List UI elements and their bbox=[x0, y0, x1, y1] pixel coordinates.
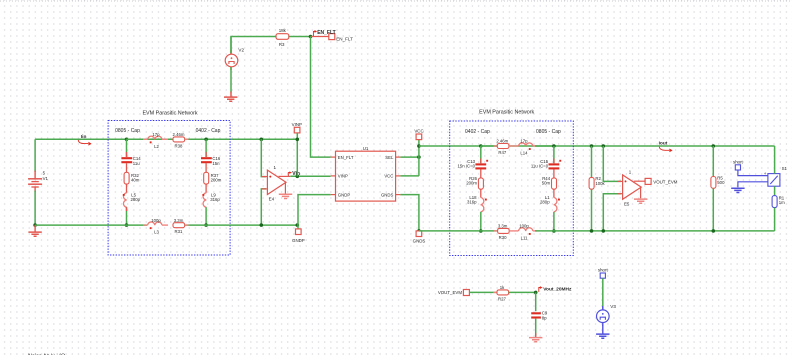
wire bottom rail left bbox=[35, 224, 147, 226]
junction top rail C14 bbox=[125, 138, 129, 142]
wire L14 to C15 node bbox=[535, 145, 554, 147]
junction bottom rail C13 bbox=[479, 229, 483, 233]
junction top rail C13 bbox=[479, 144, 483, 148]
tag GNDP bbox=[292, 229, 305, 243]
tag EN_FLT bbox=[329, 34, 353, 42]
svg-text:1k: 1k bbox=[500, 285, 505, 290]
tag VOUT_EVM bbox=[645, 178, 678, 184]
svg-text:1: 1 bbox=[274, 165, 277, 170]
junction top rail C16 bbox=[204, 138, 208, 142]
junction bottom rail C16 bbox=[204, 223, 208, 227]
svg-text:E5: E5 bbox=[624, 201, 630, 206]
svg-text:5: 5 bbox=[43, 171, 46, 176]
svg-text:S1: S1 bbox=[782, 166, 788, 171]
junction VINP top rail bbox=[296, 138, 300, 142]
svg-text:100p: 100p bbox=[151, 218, 161, 223]
wire U1 VCC pin to riser bbox=[400, 175, 419, 177]
wire R27 to C9 node bbox=[509, 291, 536, 293]
svg-text:15n: 15n bbox=[212, 161, 220, 166]
svg-text:R38: R38 bbox=[175, 143, 183, 148]
wire bottom rail right start bbox=[419, 230, 498, 232]
svg-text:E4: E4 bbox=[269, 197, 275, 202]
junction SEL bbox=[417, 155, 421, 159]
wire EN_FLT node down to U1 bbox=[311, 37, 331, 158]
inductor L9 bbox=[202, 192, 220, 207]
wire short tag to S1 bbox=[738, 170, 768, 176]
svg-text:3.3m: 3.3m bbox=[498, 224, 508, 229]
svg-text:VCC: VCC bbox=[414, 128, 423, 133]
svg-text:11u: 11u bbox=[133, 161, 140, 166]
svg-text:EVM Parasitic Network: EVM Parasitic Network bbox=[479, 109, 534, 115]
wire top rail to S1 bbox=[774, 146, 776, 174]
wire top rail right bbox=[419, 145, 775, 147]
svg-text:SEL: SEL bbox=[385, 155, 394, 160]
wire C15 branch top bbox=[553, 146, 555, 163]
junction bottom rail C15 bbox=[552, 229, 556, 233]
wire C15 to R44 bbox=[553, 169, 555, 178]
svg-text:+: + bbox=[764, 171, 767, 176]
wire short tag to V3 bbox=[602, 278, 604, 309]
svg-text:40m: 40m bbox=[131, 177, 140, 182]
svg-text:VINP: VINP bbox=[338, 174, 348, 179]
dashed boundary EVM parasitic network left bbox=[108, 121, 230, 256]
capacitor C14 bbox=[121, 156, 141, 166]
svg-text:200m: 200m bbox=[466, 180, 477, 185]
resistor R37 bbox=[204, 172, 222, 184]
svg-text:L3: L3 bbox=[154, 230, 159, 235]
svg-text:EN_FLT: EN_FLT bbox=[338, 155, 354, 160]
wire U1 SEL to VCC net bbox=[400, 156, 419, 158]
resistor R27 bbox=[493, 285, 508, 301]
wire L18 to bottom rail bbox=[480, 212, 482, 231]
svg-text:VINP: VINP bbox=[292, 122, 302, 127]
svg-text:8p: 8p bbox=[542, 315, 547, 320]
wire VINP tag down bbox=[296, 133, 298, 176]
op-amp VCVS E4 bbox=[262, 165, 292, 202]
wire C16 to R37 bbox=[205, 163, 207, 172]
wire L1 to bottom rail bbox=[553, 212, 555, 231]
wire R2 to bottom rail bbox=[591, 189, 593, 231]
junction VCC rail bbox=[417, 144, 421, 148]
junction E5 plus top bbox=[602, 144, 606, 148]
wire C14 branch top bbox=[126, 139, 128, 157]
junction E4 minus bottom bbox=[260, 223, 264, 227]
tag VINP bbox=[292, 122, 302, 133]
wire ground to S1 bbox=[738, 182, 768, 188]
ground under V1 bbox=[28, 225, 41, 236]
svg-text:0805 - Cap: 0805 - Cap bbox=[115, 128, 140, 134]
wire R26 to L18 bbox=[480, 189, 482, 197]
resistor R2 bbox=[589, 176, 605, 189]
svg-text:EN_FLT: EN_FLT bbox=[336, 36, 353, 41]
svg-text:VCC: VCC bbox=[384, 174, 393, 179]
junction GNDP node bbox=[296, 223, 300, 227]
inductor L14 bbox=[509, 139, 537, 156]
resistor R44 bbox=[542, 176, 557, 189]
svg-text:2.46m: 2.46m bbox=[496, 139, 508, 144]
wire VCC riser bbox=[418, 140, 420, 176]
inductor L1 bbox=[540, 195, 560, 212]
inductor L11 bbox=[509, 224, 537, 241]
junction R2 bottom bbox=[590, 229, 594, 233]
svg-text:EN_FLT: EN_FLT bbox=[317, 30, 336, 36]
wire bottom rail right bbox=[535, 230, 775, 232]
wire L5 to bottom rail bbox=[126, 207, 128, 225]
svg-text:VOUT_EVM: VOUT_EVM bbox=[438, 290, 462, 295]
wire R2 branch bbox=[591, 146, 593, 177]
ground under V2 bbox=[224, 92, 237, 102]
junction E5 minus bottom bbox=[602, 229, 606, 233]
svg-text:short: short bbox=[598, 268, 609, 273]
source V2 bbox=[225, 37, 244, 71]
wire V2 to R3 bbox=[231, 37, 276, 54]
wire V2 to ground bbox=[230, 67, 232, 93]
voltage probe EN_FLT bbox=[313, 30, 335, 36]
svg-text:18k: 18k bbox=[279, 28, 287, 33]
svg-text:R27: R27 bbox=[498, 296, 506, 301]
wire R38 to C16 node bbox=[185, 138, 207, 140]
junction V1 bottom bbox=[33, 223, 37, 227]
wire bottom rail mid bbox=[185, 224, 298, 226]
wire R37 to L9 bbox=[205, 184, 207, 193]
svg-text:Iout: Iout bbox=[659, 140, 668, 146]
svg-text:GNDS: GNDS bbox=[413, 239, 426, 244]
op-amp VCVS E5 bbox=[618, 170, 648, 207]
wire tag to R27 bbox=[469, 291, 497, 293]
resistor R32 bbox=[124, 172, 140, 184]
svg-text:316p: 316p bbox=[467, 200, 477, 205]
wire V3 to ground bbox=[602, 325, 604, 334]
junction R5 top bbox=[712, 144, 716, 148]
current probe Iin bbox=[78, 134, 91, 146]
wire U1 GNDP to bottom rail bbox=[298, 195, 331, 226]
svg-text:0402 - Cap: 0402 - Cap bbox=[196, 128, 221, 134]
inductor L3 bbox=[143, 218, 168, 235]
svg-text:1: 1 bbox=[629, 170, 632, 175]
source V1 bbox=[28, 139, 48, 192]
wire E4 minus input to bottom rail bbox=[261, 189, 266, 225]
current probe Iout bbox=[659, 140, 673, 152]
resistor R47 bbox=[481, 139, 509, 155]
ground under short tag bbox=[731, 188, 744, 192]
svg-text:V1: V1 bbox=[43, 176, 49, 181]
junction R2 top bbox=[590, 144, 594, 148]
svg-text:L11: L11 bbox=[521, 236, 528, 241]
tag short V3 bbox=[598, 268, 609, 279]
wire R5 branch bbox=[712, 146, 714, 177]
wire R32 to L5 bbox=[126, 184, 128, 193]
svg-text:0402 - Cap: 0402 - Cap bbox=[465, 129, 490, 135]
svg-text:3.3m: 3.3m bbox=[174, 218, 184, 223]
wire R1 to bottom rail bbox=[774, 208, 776, 231]
resistor R26 bbox=[466, 176, 483, 189]
wire to E4 plus input bbox=[261, 139, 266, 176]
svg-text:EVM Parasitic Network: EVM Parasitic Network bbox=[142, 111, 197, 117]
resistor R5 bbox=[711, 175, 725, 188]
tag GNDS bbox=[413, 231, 426, 244]
resistor R3 bbox=[276, 28, 289, 47]
wire C13 branch top bbox=[480, 146, 482, 163]
svg-text:50m: 50m bbox=[542, 180, 551, 185]
wire V1 to bottom rail bbox=[34, 191, 36, 226]
wire U1 GNDS to riser bbox=[400, 195, 419, 231]
svg-text:R3: R3 bbox=[279, 42, 285, 47]
svg-text:short: short bbox=[733, 159, 744, 164]
wire to E5 plus input bbox=[603, 146, 621, 181]
svg-text:VOUT_EVM: VOUT_EVM bbox=[653, 180, 677, 185]
tag VOUT_EVM lower bbox=[438, 290, 470, 296]
inductor L2 bbox=[127, 132, 169, 149]
wire R3 to EN_FLT node bbox=[289, 36, 311, 38]
svg-text:R30: R30 bbox=[499, 235, 507, 240]
svg-text:280p: 280p bbox=[540, 200, 550, 205]
wire E4 output to U1 VINP bbox=[290, 175, 330, 177]
junction GNDS rail bbox=[417, 229, 421, 233]
resistor R30 bbox=[494, 224, 509, 240]
capacitor C16 bbox=[201, 156, 221, 166]
wire S1 to R1 bbox=[774, 186, 776, 195]
top toolbar edge dashed line bbox=[0, 0, 792, 2]
junction R5 bottom bbox=[712, 229, 716, 233]
wire R5 to bottom rail bbox=[712, 188, 714, 231]
voltage probe Vout_20MHz bbox=[539, 287, 572, 293]
inductor L5 bbox=[123, 192, 141, 207]
resistor R31 bbox=[173, 218, 185, 234]
svg-text:15n IC=0: 15n IC=0 bbox=[457, 164, 475, 169]
wire C14 to R32 bbox=[126, 163, 128, 172]
svg-text:1m: 1m bbox=[779, 200, 785, 205]
source V3 bbox=[597, 304, 617, 326]
ground under V3 bbox=[596, 334, 609, 338]
ground under C9 bbox=[529, 333, 542, 342]
wire C9 to ground bbox=[535, 319, 537, 337]
svg-text:V2: V2 bbox=[238, 48, 244, 53]
svg-text:500: 500 bbox=[717, 180, 725, 185]
wire C13 to R26 bbox=[480, 169, 482, 178]
svg-text:17p: 17p bbox=[520, 139, 528, 144]
svg-text:R31: R31 bbox=[175, 229, 183, 234]
svg-text:17p: 17p bbox=[152, 132, 160, 137]
tag short S1 bbox=[733, 159, 744, 170]
wire R44 to L1 bbox=[553, 189, 555, 197]
voltage probe Vin bbox=[288, 171, 300, 177]
svg-text:280p: 280p bbox=[131, 197, 141, 202]
wire GNDP tag stub bbox=[297, 225, 299, 229]
svg-text:100p: 100p bbox=[519, 224, 529, 229]
svg-text:316p: 316p bbox=[210, 197, 220, 202]
resistor R1 bbox=[772, 195, 785, 207]
svg-text:GNDP: GNDP bbox=[338, 192, 351, 197]
svg-text:200m: 200m bbox=[211, 177, 222, 182]
svg-text:Vout_20MHz: Vout_20MHz bbox=[543, 287, 572, 293]
wire E5 minus input to bottom rail bbox=[603, 194, 621, 231]
capacitor C9 bbox=[531, 311, 548, 321]
capacitor C15 bbox=[531, 159, 561, 169]
junction VINP node bbox=[296, 175, 300, 179]
wire L9 to bottom rail bbox=[205, 207, 207, 225]
svg-text:2.46m: 2.46m bbox=[173, 132, 185, 137]
svg-text:0805 - Cap: 0805 - Cap bbox=[536, 129, 561, 135]
dashed boundary EVM parasitic network right bbox=[450, 121, 574, 256]
svg-text:GNDS: GNDS bbox=[381, 192, 394, 197]
IC U1 bbox=[331, 146, 401, 201]
wire C16 branch top bbox=[205, 139, 207, 157]
inductor L18 bbox=[467, 195, 487, 212]
junction bottom rail C14 bbox=[125, 223, 129, 227]
resistor R38 bbox=[173, 132, 185, 148]
svg-text:Iin: Iin bbox=[81, 134, 87, 140]
svg-text:L2: L2 bbox=[154, 144, 159, 149]
junction Vout_20MHz node bbox=[534, 291, 538, 295]
junction EN_FLT node bbox=[309, 35, 313, 39]
junction E4 plus top bbox=[260, 138, 264, 142]
svg-text:V3: V3 bbox=[610, 304, 616, 309]
switch S1 bbox=[768, 166, 788, 186]
tag VCC bbox=[414, 128, 423, 139]
svg-text:U1: U1 bbox=[363, 146, 369, 151]
wire node to C9 bbox=[535, 292, 537, 311]
svg-text:L14: L14 bbox=[520, 151, 528, 156]
junction top rail C15 bbox=[552, 144, 556, 148]
wire top rail left bbox=[35, 138, 297, 140]
svg-text:GNDP: GNDP bbox=[292, 238, 305, 243]
svg-text:11u IC=0: 11u IC=0 bbox=[531, 164, 549, 169]
capacitor C13 bbox=[457, 159, 488, 169]
wire node to tag EN_FLT bbox=[311, 36, 329, 38]
svg-text:R47: R47 bbox=[498, 150, 506, 155]
